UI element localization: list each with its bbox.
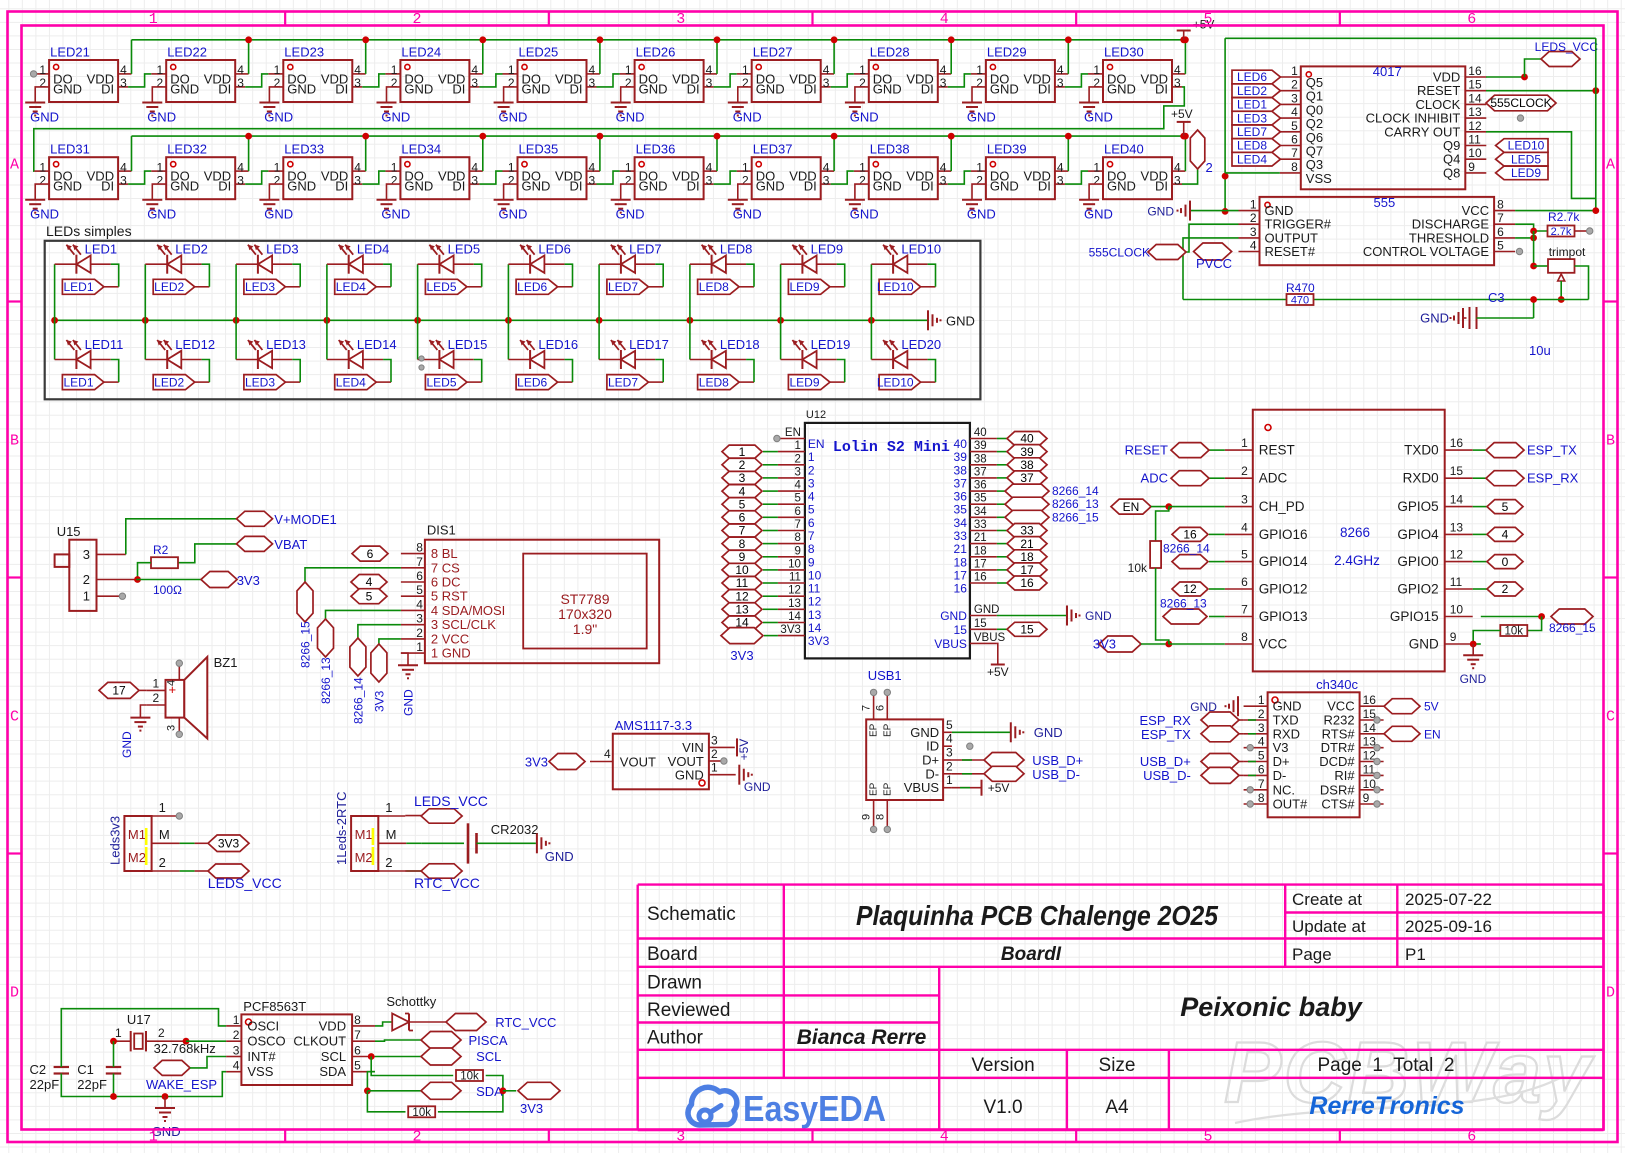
- svg-text:6: 6: [1258, 762, 1265, 776]
- svg-text:2: 2: [157, 76, 164, 90]
- svg-text:8: 8: [1291, 160, 1298, 174]
- svg-text:LED19: LED19: [811, 337, 851, 352]
- svg-text:36: 36: [974, 480, 987, 492]
- svg-text:GND: GND: [756, 81, 785, 96]
- svg-text:1: 1: [976, 63, 983, 77]
- svg-text:RTC_VCC: RTC_VCC: [414, 875, 480, 891]
- svg-text:2: 2: [625, 76, 632, 90]
- svg-text:GND: GND: [287, 81, 316, 96]
- svg-text:GPIO16: GPIO16: [1259, 527, 1308, 542]
- svg-text:GND: GND: [946, 313, 975, 328]
- svg-text:LED9: LED9: [789, 375, 819, 389]
- svg-text:170x320: 170x320: [558, 606, 612, 622]
- svg-text:38: 38: [974, 453, 987, 465]
- svg-text:2: 2: [1291, 78, 1298, 92]
- svg-text:GND: GND: [522, 81, 551, 96]
- svg-text:GND: GND: [147, 110, 176, 125]
- svg-text:1: 1: [1250, 198, 1257, 212]
- svg-text:11: 11: [808, 582, 821, 596]
- svg-text:4: 4: [940, 160, 947, 174]
- svg-text:ch340c: ch340c: [1316, 677, 1358, 692]
- svg-text:1: 1: [391, 63, 398, 77]
- svg-text:40: 40: [974, 427, 987, 439]
- svg-text:5: 5: [739, 497, 746, 511]
- svg-text:4: 4: [706, 160, 713, 174]
- svg-text:5: 5: [1497, 239, 1504, 253]
- svg-text:GND: GND: [1084, 207, 1113, 222]
- svg-text:18: 18: [954, 555, 968, 569]
- svg-text:3: 3: [706, 173, 713, 187]
- svg-text:LED10: LED10: [901, 242, 941, 257]
- svg-text:GND: GND: [170, 179, 199, 194]
- svg-text:EasyEDA: EasyEDA: [743, 1088, 886, 1129]
- svg-text:3: 3: [589, 173, 596, 187]
- svg-text:2: 2: [153, 691, 160, 705]
- svg-text:1: 1: [508, 160, 515, 174]
- svg-text:9: 9: [808, 555, 815, 569]
- svg-text:LED39: LED39: [987, 142, 1027, 157]
- svg-text:DI: DI: [687, 179, 700, 194]
- svg-text:1: 1: [625, 63, 632, 77]
- svg-text:2: 2: [1258, 707, 1265, 721]
- svg-text:3: 3: [946, 746, 953, 760]
- svg-text:VBUS: VBUS: [904, 780, 940, 795]
- svg-text:2: 2: [412, 11, 421, 28]
- svg-text:1: 1: [153, 677, 160, 691]
- svg-text:3: 3: [237, 76, 244, 90]
- svg-text:2: 2: [739, 458, 746, 472]
- svg-text:8: 8: [808, 542, 815, 556]
- svg-text:R2.7k: R2.7k: [1548, 210, 1580, 224]
- svg-text:M1: M1: [355, 827, 373, 842]
- svg-text:5: 5: [354, 1059, 361, 1073]
- svg-text:USB_D+: USB_D+: [1140, 754, 1191, 769]
- svg-text:9: 9: [1450, 630, 1457, 644]
- svg-text:LED37: LED37: [753, 142, 793, 157]
- svg-text:3: 3: [1057, 173, 1064, 187]
- svg-text:DIS1: DIS1: [427, 523, 456, 538]
- svg-text:2: 2: [391, 173, 398, 187]
- svg-text:GND: GND: [1034, 725, 1063, 740]
- svg-text:LED9: LED9: [1511, 166, 1541, 180]
- svg-text:GND: GND: [910, 725, 939, 740]
- svg-text:USB1: USB1: [868, 668, 902, 683]
- svg-text:1: 1: [1093, 160, 1100, 174]
- svg-text:GPIO14: GPIO14: [1259, 554, 1308, 569]
- svg-text:Leds3v3: Leds3v3: [107, 816, 122, 865]
- svg-text:Page: Page: [1292, 945, 1332, 964]
- svg-text:3: 3: [823, 173, 830, 187]
- svg-text:3: 3: [237, 173, 244, 187]
- svg-text:M2: M2: [355, 850, 373, 865]
- svg-text:GND: GND: [990, 81, 1019, 96]
- svg-text:CR2032: CR2032: [491, 822, 539, 837]
- svg-text:6: 6: [739, 511, 746, 525]
- svg-text:3: 3: [940, 76, 947, 90]
- svg-text:2: 2: [158, 1026, 165, 1040]
- svg-text:14: 14: [808, 621, 822, 635]
- svg-text:EN: EN: [808, 437, 825, 451]
- svg-text:LED8: LED8: [699, 280, 729, 294]
- svg-text:1: 1: [1291, 64, 1298, 78]
- svg-text:USB_D+: USB_D+: [1032, 753, 1083, 768]
- svg-text:5: 5: [1502, 500, 1509, 514]
- svg-text:4: 4: [237, 63, 244, 77]
- svg-text:LED7: LED7: [608, 375, 638, 389]
- svg-text:A: A: [1606, 157, 1615, 174]
- svg-text:4: 4: [589, 63, 596, 77]
- svg-text:3: 3: [120, 173, 127, 187]
- svg-text:1: 1: [39, 160, 46, 174]
- svg-text:VCC: VCC: [1327, 699, 1354, 714]
- svg-text:3: 3: [354, 173, 361, 187]
- svg-text:BoardI: BoardI: [1001, 944, 1062, 965]
- svg-text:LED1: LED1: [1237, 98, 1267, 112]
- svg-text:RESET#: RESET#: [1265, 244, 1316, 259]
- svg-text:RXD: RXD: [1273, 726, 1300, 741]
- svg-text:4017: 4017: [1373, 64, 1402, 79]
- svg-text:LED31: LED31: [50, 142, 90, 157]
- svg-text:7: 7: [1258, 777, 1265, 791]
- svg-text:Q8: Q8: [1443, 165, 1460, 180]
- svg-text:2: 2: [742, 173, 749, 187]
- svg-text:D-: D-: [1273, 768, 1287, 783]
- svg-text:39: 39: [954, 450, 968, 464]
- svg-text:1: 1: [859, 160, 866, 174]
- svg-text:3: 3: [940, 173, 947, 187]
- svg-text:LED7: LED7: [608, 280, 638, 294]
- svg-text:GND: GND: [639, 81, 668, 96]
- svg-text:3: 3: [1250, 225, 1257, 239]
- svg-text:LED1: LED1: [63, 280, 93, 294]
- svg-text:21: 21: [974, 532, 987, 544]
- svg-text:DI: DI: [452, 179, 465, 194]
- svg-text:4: 4: [940, 11, 949, 28]
- svg-text:16: 16: [1363, 693, 1377, 707]
- svg-text:2.4GHz: 2.4GHz: [1334, 553, 1380, 568]
- svg-text:DI: DI: [570, 81, 583, 96]
- svg-text:8 BL: 8 BL: [431, 546, 458, 561]
- svg-text:7: 7: [739, 524, 746, 538]
- svg-text:M1: M1: [128, 827, 146, 842]
- svg-text:SDA: SDA: [476, 1084, 503, 1099]
- svg-text:2 VCC: 2 VCC: [431, 631, 469, 646]
- svg-text:555CLOCK: 555CLOCK: [1490, 96, 1551, 110]
- svg-text:+5V: +5V: [1171, 107, 1193, 121]
- svg-text:34: 34: [974, 506, 987, 518]
- svg-text:9: 9: [794, 545, 800, 557]
- svg-text:1: 1: [83, 589, 90, 604]
- svg-text:LED2: LED2: [154, 280, 184, 294]
- svg-text:V3: V3: [1273, 740, 1289, 755]
- svg-text:3: 3: [823, 76, 830, 90]
- svg-text:1: 1: [416, 640, 423, 654]
- svg-text:LED7: LED7: [1237, 125, 1267, 139]
- svg-text:1: 1: [976, 160, 983, 174]
- svg-text:LED32: LED32: [167, 142, 207, 157]
- svg-text:GND: GND: [402, 689, 416, 716]
- svg-text:2: 2: [946, 759, 953, 773]
- svg-text:RTC_VCC: RTC_VCC: [495, 1015, 556, 1030]
- svg-text:3: 3: [711, 734, 718, 748]
- svg-text:8266_13: 8266_13: [1160, 597, 1207, 611]
- svg-text:13: 13: [808, 608, 822, 622]
- svg-text:1: 1: [794, 440, 800, 452]
- svg-text:GND: GND: [545, 849, 574, 864]
- svg-text:17: 17: [1020, 563, 1034, 577]
- svg-text:DI: DI: [218, 179, 231, 194]
- svg-text:2: 2: [859, 76, 866, 90]
- svg-text:4: 4: [120, 160, 127, 174]
- svg-text:LEDS_VCC: LEDS_VCC: [208, 875, 282, 891]
- svg-text:C: C: [1606, 709, 1615, 726]
- svg-text:15: 15: [974, 618, 987, 630]
- svg-text:LED1: LED1: [85, 242, 118, 257]
- svg-text:SDA: SDA: [319, 1064, 346, 1079]
- svg-text:5 RST: 5 RST: [431, 589, 468, 604]
- svg-text:U12: U12: [806, 409, 826, 421]
- svg-text:5: 5: [366, 589, 373, 603]
- svg-text:1: 1: [157, 160, 164, 174]
- svg-text:6: 6: [874, 705, 886, 711]
- svg-text:GND: GND: [756, 179, 785, 194]
- svg-text:LED3: LED3: [245, 280, 275, 294]
- svg-text:8266_14: 8266_14: [351, 677, 365, 724]
- svg-text:GND: GND: [850, 207, 879, 222]
- svg-text:2: 2: [1206, 160, 1213, 175]
- svg-text:38: 38: [1020, 458, 1034, 472]
- svg-text:DSR#: DSR#: [1320, 782, 1355, 797]
- svg-text:4: 4: [1241, 520, 1248, 534]
- svg-text:4: 4: [823, 63, 830, 77]
- svg-text:4: 4: [1057, 160, 1064, 174]
- svg-text:2: 2: [83, 572, 90, 587]
- svg-text:DI: DI: [1038, 81, 1051, 96]
- svg-text:ADC: ADC: [1259, 471, 1288, 486]
- svg-text:7: 7: [861, 705, 873, 711]
- svg-text:8: 8: [416, 541, 423, 555]
- svg-text:LEDs simples: LEDs simples: [46, 223, 132, 239]
- svg-text:6: 6: [367, 547, 374, 561]
- svg-text:17: 17: [954, 568, 968, 582]
- svg-text:+5V: +5V: [737, 739, 751, 761]
- svg-text:4: 4: [1057, 63, 1064, 77]
- svg-text:3 SCL/CLK: 3 SCL/CLK: [431, 617, 496, 632]
- svg-text:VBUS: VBUS: [934, 637, 967, 651]
- svg-text:555: 555: [1374, 195, 1396, 210]
- svg-text:4: 4: [237, 160, 244, 174]
- svg-text:INT#: INT#: [247, 1049, 276, 1064]
- svg-text:ESP_RX: ESP_RX: [1139, 713, 1191, 728]
- svg-text:15: 15: [1468, 78, 1482, 92]
- svg-text:R470: R470: [1286, 281, 1315, 295]
- svg-text:37: 37: [954, 476, 968, 490]
- svg-text:4: 4: [416, 597, 423, 611]
- svg-text:GPIO12: GPIO12: [1259, 582, 1308, 597]
- svg-text:LED4: LED4: [336, 280, 366, 294]
- svg-text:1: 1: [385, 800, 392, 815]
- svg-text:2.7k: 2.7k: [1551, 226, 1572, 238]
- svg-text:LED6: LED6: [1237, 70, 1267, 84]
- svg-text:ESP_TX: ESP_TX: [1527, 443, 1577, 458]
- svg-text:LED11: LED11: [85, 337, 124, 352]
- svg-text:8266_13: 8266_13: [319, 657, 333, 704]
- svg-text:GND: GND: [940, 609, 967, 623]
- svg-text:GND: GND: [30, 207, 59, 222]
- svg-text:DI: DI: [921, 81, 934, 96]
- svg-text:GPIO15: GPIO15: [1390, 609, 1439, 624]
- svg-text:OSCO: OSCO: [247, 1034, 285, 1049]
- svg-text:EP: EP: [882, 723, 893, 737]
- svg-text:GPIO5: GPIO5: [1397, 499, 1438, 514]
- svg-text:LED4: LED4: [336, 375, 366, 389]
- svg-text:2: 2: [1502, 582, 1509, 596]
- svg-text:LED10: LED10: [877, 375, 914, 389]
- svg-text:4: 4: [1174, 63, 1181, 77]
- svg-text:4: 4: [739, 484, 746, 498]
- svg-text:4: 4: [120, 63, 127, 77]
- svg-text:10u: 10u: [1529, 343, 1551, 358]
- svg-text:VCC: VCC: [1259, 637, 1288, 652]
- svg-text:8: 8: [794, 532, 800, 544]
- svg-text:LED22: LED22: [167, 45, 207, 60]
- svg-text:Create at: Create at: [1292, 890, 1362, 909]
- svg-text:3V3: 3V3: [237, 573, 260, 588]
- svg-text:2: 2: [794, 453, 800, 465]
- svg-text:LED18: LED18: [720, 337, 760, 352]
- svg-text:C2: C2: [30, 1062, 47, 1077]
- svg-text:1: 1: [274, 160, 281, 174]
- svg-text:17: 17: [974, 558, 987, 570]
- svg-text:7: 7: [1291, 146, 1298, 160]
- svg-text:LED28: LED28: [870, 45, 910, 60]
- svg-text:GND: GND: [639, 179, 668, 194]
- svg-text:8266: 8266: [1340, 525, 1370, 540]
- svg-text:GND: GND: [1409, 637, 1439, 652]
- svg-text:470: 470: [1291, 295, 1309, 307]
- svg-text:8: 8: [739, 537, 746, 551]
- svg-text:Peixonic baby: Peixonic baby: [1180, 992, 1364, 1022]
- svg-text:GND: GND: [381, 207, 410, 222]
- svg-text:1: 1: [859, 63, 866, 77]
- svg-text:4: 4: [589, 160, 596, 174]
- svg-text:3: 3: [83, 547, 90, 562]
- svg-text:USB_D-: USB_D-: [1032, 767, 1080, 782]
- svg-text:DI: DI: [687, 81, 700, 96]
- svg-text:ST7789: ST7789: [560, 591, 609, 607]
- svg-text:GND: GND: [522, 179, 551, 194]
- svg-text:4: 4: [1502, 528, 1509, 542]
- svg-text:R232: R232: [1324, 713, 1355, 728]
- svg-text:100Ω: 100Ω: [153, 583, 182, 597]
- svg-text:PISCA: PISCA: [469, 1033, 508, 1048]
- svg-text:LED3: LED3: [1237, 111, 1267, 125]
- svg-text:CONTROL VOLTAGE: CONTROL VOLTAGE: [1363, 244, 1489, 259]
- svg-text:DI: DI: [101, 179, 114, 194]
- svg-text:GND: GND: [404, 81, 433, 96]
- svg-text:LED7: LED7: [629, 242, 662, 257]
- svg-text:4: 4: [940, 63, 947, 77]
- svg-text:U15: U15: [57, 524, 81, 539]
- svg-text:15: 15: [1020, 623, 1034, 637]
- svg-text:1: 1: [39, 63, 46, 77]
- svg-text:C1: C1: [77, 1062, 94, 1077]
- svg-text:14: 14: [788, 611, 801, 623]
- svg-text:14: 14: [1450, 493, 1464, 507]
- svg-text:EN: EN: [1123, 500, 1140, 514]
- svg-text:LED27: LED27: [753, 45, 793, 60]
- svg-text:2: 2: [385, 855, 392, 870]
- svg-text:9: 9: [1363, 791, 1370, 805]
- svg-text:LED5: LED5: [426, 280, 456, 294]
- svg-text:DI: DI: [804, 81, 817, 96]
- svg-text:Size: Size: [1099, 1055, 1136, 1076]
- svg-text:2: 2: [274, 76, 281, 90]
- svg-text:U17: U17: [127, 1012, 151, 1027]
- svg-text:VSS: VSS: [247, 1064, 273, 1079]
- svg-text:9: 9: [861, 814, 873, 820]
- svg-text:7: 7: [416, 555, 423, 569]
- svg-text:CLKOUT: CLKOUT: [293, 1034, 346, 1049]
- svg-text:DI: DI: [1038, 179, 1051, 194]
- svg-text:4: 4: [1291, 105, 1298, 119]
- svg-text:Update at: Update at: [1292, 917, 1366, 936]
- svg-text:3: 3: [808, 476, 815, 490]
- svg-text:2: 2: [274, 173, 281, 187]
- svg-text:40: 40: [954, 437, 968, 451]
- svg-text:VBUS: VBUS: [974, 632, 1006, 644]
- svg-text:4: 4: [794, 480, 801, 492]
- svg-text:12: 12: [788, 585, 801, 597]
- svg-text:D: D: [1606, 985, 1615, 1002]
- svg-text:33: 33: [954, 529, 968, 543]
- svg-text:DI: DI: [1155, 81, 1168, 96]
- svg-text:6: 6: [808, 516, 815, 530]
- svg-text:1: 1: [1093, 63, 1100, 77]
- svg-text:2: 2: [412, 1129, 421, 1146]
- svg-text:16: 16: [954, 582, 968, 596]
- svg-text:1: 1: [149, 11, 158, 28]
- svg-text:SCL: SCL: [476, 1049, 501, 1064]
- svg-text:+5V: +5V: [987, 665, 1009, 679]
- svg-text:REST: REST: [1259, 443, 1295, 458]
- svg-text:LED21: LED21: [50, 45, 90, 60]
- svg-text:1: 1: [711, 761, 718, 775]
- svg-text:1: 1: [739, 445, 746, 459]
- svg-text:DI: DI: [804, 179, 817, 194]
- svg-text:2: 2: [39, 76, 46, 90]
- svg-text:LED10: LED10: [1508, 139, 1545, 153]
- svg-text:GND: GND: [1107, 81, 1136, 96]
- svg-text:13: 13: [1450, 520, 1464, 534]
- svg-text:RerreTronics: RerreTronics: [1309, 1092, 1464, 1120]
- svg-text:3: 3: [739, 471, 746, 485]
- svg-text:DI: DI: [335, 179, 348, 194]
- svg-text:GND: GND: [499, 207, 528, 222]
- svg-text:DI: DI: [218, 81, 231, 96]
- svg-text:GND: GND: [404, 179, 433, 194]
- svg-text:LED6: LED6: [517, 375, 547, 389]
- svg-text:4: 4: [1258, 735, 1265, 749]
- svg-text:6: 6: [794, 506, 800, 518]
- svg-text:3: 3: [706, 76, 713, 90]
- svg-text:Page 1 Total 2: Page 1 Total 2: [1318, 1055, 1455, 1076]
- svg-text:4: 4: [823, 160, 830, 174]
- svg-text:8266_15: 8266_15: [1052, 510, 1099, 524]
- svg-text:5: 5: [1258, 749, 1265, 763]
- svg-text:11: 11: [789, 572, 801, 584]
- svg-text:11: 11: [1450, 575, 1463, 589]
